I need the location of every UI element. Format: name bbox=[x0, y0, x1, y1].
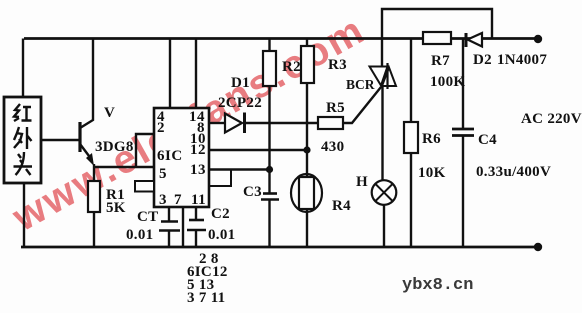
small box left bbox=[135, 181, 154, 192]
svg-text:3DG8: 3DG8 bbox=[95, 139, 134, 155]
svg-text:R7: R7 bbox=[431, 53, 450, 69]
resistor R1 bbox=[88, 181, 100, 212]
svg-text:0.01: 0.01 bbox=[126, 227, 153, 243]
wire R6 bottom bbox=[410, 153, 412, 247]
svg-text:2: 2 bbox=[157, 120, 165, 136]
wire lamp bottom bbox=[383, 204, 385, 247]
resistor R7 bbox=[423, 32, 451, 44]
top rail bbox=[24, 37, 537, 40]
wire R3 to R4 bbox=[306, 83, 308, 176]
capacitor C4 bbox=[452, 128, 474, 131]
label tou bbox=[14, 152, 33, 175]
node pin12/R4 junction bbox=[303, 146, 310, 153]
capacitor C2 bbox=[189, 219, 204, 222]
wire R1 bottom bbox=[93, 212, 95, 247]
triac BCR bbox=[370, 67, 388, 86]
svg-text:7: 7 bbox=[174, 192, 182, 208]
svg-text:3: 3 bbox=[159, 192, 167, 208]
svg-text:H: H bbox=[356, 174, 368, 190]
bottom rail bbox=[21, 246, 538, 249]
svg-text:BCR: BCR bbox=[346, 77, 375, 92]
svg-text:13: 13 bbox=[190, 162, 206, 178]
watermark bbox=[5, 7, 373, 240]
wire R2 top bbox=[268, 39, 270, 52]
small box right bbox=[209, 170, 231, 187]
svg-text:10K: 10K bbox=[418, 165, 446, 181]
svg-text:0.33u/400V: 0.33u/400V bbox=[476, 164, 551, 180]
svg-text:CT: CT bbox=[137, 209, 158, 225]
wire R6 top bbox=[410, 39, 412, 123]
node pin13/C3 junction bbox=[266, 166, 273, 173]
AC terminal top bbox=[534, 35, 542, 43]
transistor emitter bbox=[80, 144, 92, 160]
svg-text:C4: C4 bbox=[478, 132, 497, 148]
svg-text:D1: D1 bbox=[231, 75, 250, 91]
wire R2 bottom to C3 bbox=[268, 86, 270, 193]
svg-text:ybx8.cn: ybx8.cn bbox=[402, 276, 473, 295]
wire pin3 CT bbox=[168, 207, 170, 221]
IC U1 bbox=[154, 108, 209, 207]
resistor R3 bbox=[301, 46, 314, 83]
wire C4 top bbox=[462, 39, 464, 130]
svg-text:R5: R5 bbox=[326, 100, 345, 116]
svg-text:V: V bbox=[104, 105, 115, 121]
svg-text:100K: 100K bbox=[430, 74, 465, 90]
lamp H bbox=[372, 180, 397, 205]
svg-text:R6: R6 bbox=[422, 131, 441, 147]
svg-text:5: 5 bbox=[159, 166, 167, 182]
svg-text:12: 12 bbox=[190, 142, 206, 158]
wire BCR to lamp bbox=[381, 86, 383, 181]
svg-text:6IC: 6IC bbox=[157, 148, 183, 164]
photoresistor R4 bbox=[291, 174, 322, 212]
svg-text:AC 220V: AC 220V bbox=[521, 111, 582, 127]
resistor R5 bbox=[318, 117, 343, 129]
label wai bbox=[14, 127, 32, 149]
capacitor C3 bbox=[263, 192, 277, 195]
wire C3 bottom bbox=[268, 200, 270, 247]
capacitor CT bbox=[161, 220, 178, 223]
wire IC top right bbox=[195, 39, 197, 109]
emitter arrow bbox=[86, 153, 94, 166]
svg-text:D2: D2 bbox=[473, 52, 492, 68]
wire pin7 ground bbox=[182, 207, 184, 247]
svg-text:3 7 11: 3 7 11 bbox=[187, 290, 225, 306]
wire box bottom bbox=[23, 183, 25, 247]
wire R3 top bbox=[306, 39, 308, 47]
infrared head box bbox=[4, 97, 41, 183]
svg-text:C3: C3 bbox=[243, 184, 262, 200]
wire pin14 to D1 bbox=[209, 122, 225, 124]
wire pin13 bbox=[209, 168, 270, 170]
resistor R6 bbox=[404, 122, 418, 153]
wire R4 bottom bbox=[306, 210, 308, 247]
svg-text:5K: 5K bbox=[106, 200, 126, 216]
svg-text:R2: R2 bbox=[282, 59, 301, 75]
wire C4 bottom bbox=[462, 136, 464, 247]
wire pin6 jog bbox=[136, 134, 154, 167]
svg-text:R3: R3 bbox=[328, 57, 347, 73]
wire box to base bbox=[41, 139, 79, 141]
wire R1 top bbox=[93, 164, 95, 181]
resistor R2 bbox=[263, 51, 276, 86]
diode D2 bbox=[468, 33, 483, 47]
label hong bbox=[14, 104, 32, 121]
wire collector bbox=[80, 39, 93, 129]
diode D1 bbox=[225, 114, 242, 133]
wire pin12 bbox=[209, 149, 307, 151]
svg-text:C2: C2 bbox=[211, 206, 230, 222]
wire emitter node bbox=[94, 166, 154, 168]
wire IC top left bbox=[169, 39, 171, 109]
top feedback loop bbox=[382, 9, 492, 66]
wire pin11 C2 bbox=[195, 207, 197, 220]
wire box top bbox=[22, 39, 24, 98]
svg-text:1N4007: 1N4007 bbox=[497, 52, 547, 68]
svg-text:11: 11 bbox=[191, 192, 206, 208]
svg-text:2CP22: 2CP22 bbox=[218, 95, 262, 111]
svg-text:R4: R4 bbox=[332, 198, 351, 214]
transistor V base bar bbox=[78, 122, 81, 152]
svg-text:0.01: 0.01 bbox=[208, 227, 235, 243]
svg-text:430: 430 bbox=[321, 139, 344, 155]
AC terminal bottom bbox=[534, 243, 542, 251]
wire gate bbox=[343, 87, 381, 123]
wire D1 to R5 bbox=[245, 122, 318, 124]
